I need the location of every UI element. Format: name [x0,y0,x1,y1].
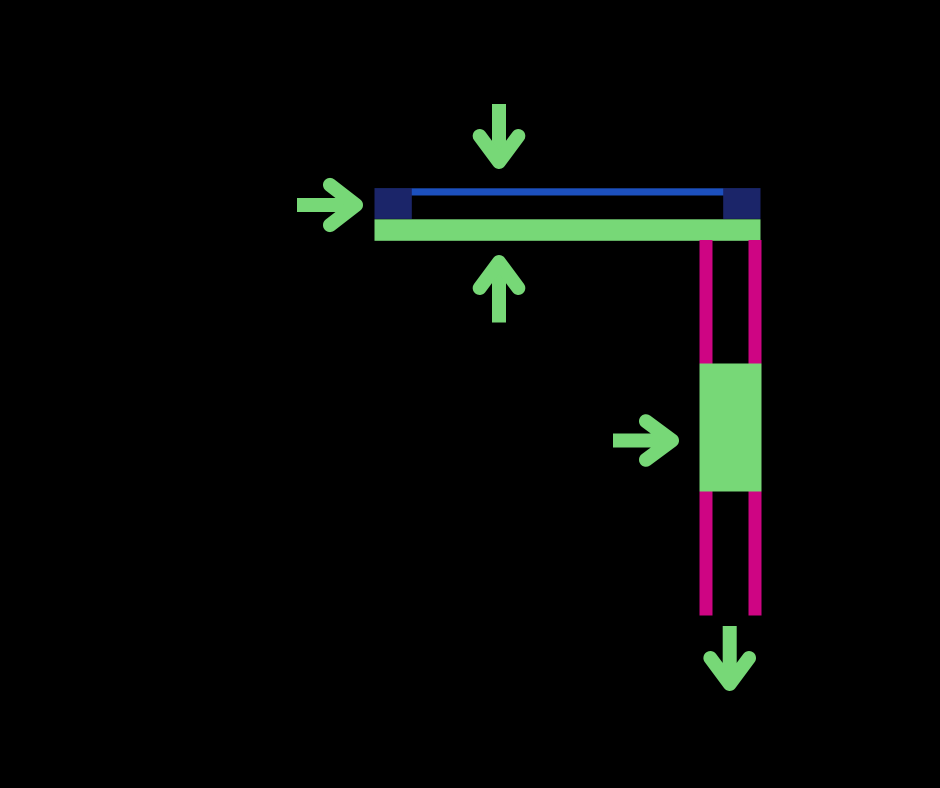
navy end cap left [375,188,412,219]
arrow right middle [613,421,672,460]
arrow down bottom [710,626,749,684]
arrow right left-side [297,185,356,225]
magenta rail right lower [749,492,762,616]
navy end cap right [723,188,760,219]
magenta rail right upper [749,240,762,364]
magenta rail left upper [700,240,713,364]
green block on rails [700,364,762,492]
green horizontal bar [375,219,761,241]
magenta rail left lower [700,492,713,616]
arrow up below bar [480,262,519,323]
arrow down top [480,104,519,162]
blue top border line [375,188,761,195]
